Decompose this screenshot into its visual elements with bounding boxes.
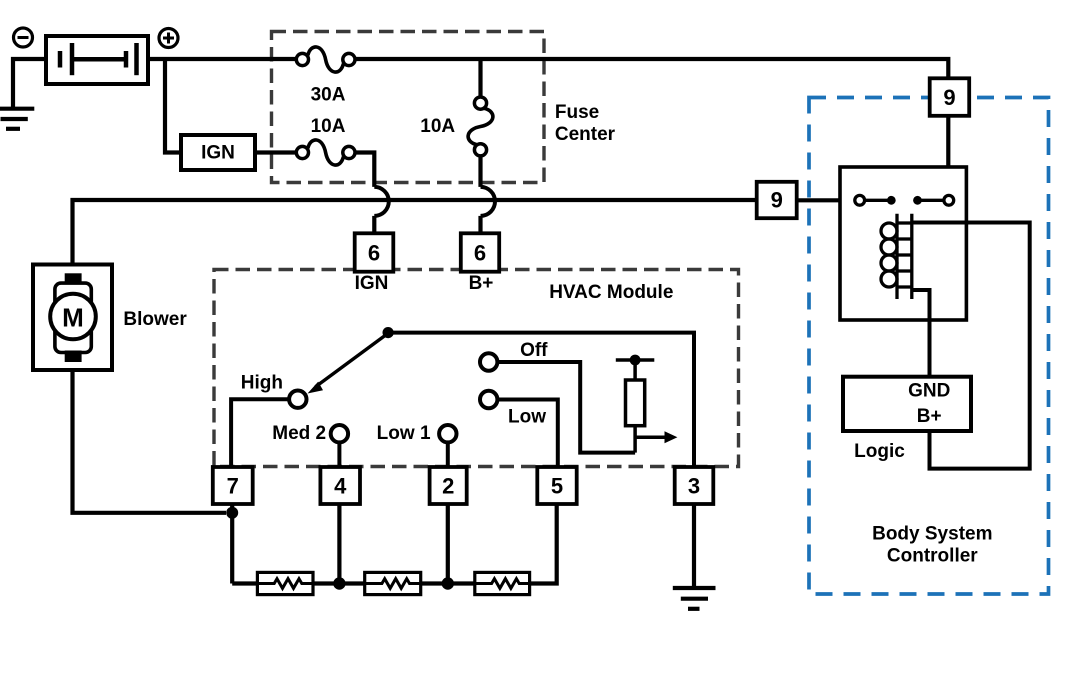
svg-text:6: 6 <box>474 240 486 265</box>
svg-text:10A: 10A <box>420 116 455 137</box>
svg-text:4: 4 <box>334 473 347 498</box>
svg-text:B+: B+ <box>917 406 942 427</box>
svg-text:3: 3 <box>688 473 700 498</box>
svg-text:Low 1: Low 1 <box>377 423 431 444</box>
svg-text:Off: Off <box>520 340 548 361</box>
svg-text:High: High <box>241 373 283 394</box>
svg-text:HVAC Module: HVAC Module <box>549 282 673 303</box>
svg-text:Blower: Blower <box>123 309 187 330</box>
svg-text:Controller: Controller <box>887 545 978 566</box>
svg-text:Body System: Body System <box>872 523 992 544</box>
svg-text:5: 5 <box>551 473 563 498</box>
svg-text:10A: 10A <box>311 116 346 137</box>
svg-text:30A: 30A <box>311 84 346 105</box>
svg-text:B+: B+ <box>469 273 494 294</box>
svg-text:9: 9 <box>771 188 783 213</box>
svg-text:M: M <box>62 303 84 333</box>
svg-text:Fuse: Fuse <box>555 102 599 123</box>
svg-text:6: 6 <box>368 240 380 265</box>
svg-text:IGN: IGN <box>355 273 389 294</box>
svg-text:Logic: Logic <box>854 441 905 462</box>
svg-text:Low: Low <box>508 406 546 427</box>
svg-text:9: 9 <box>943 85 955 110</box>
svg-text:GND: GND <box>908 381 950 402</box>
svg-text:IGN: IGN <box>201 143 235 164</box>
svg-text:7: 7 <box>227 473 239 498</box>
svg-text:Center: Center <box>555 124 616 145</box>
svg-text:Med 2: Med 2 <box>272 423 326 444</box>
svg-text:2: 2 <box>442 473 454 498</box>
